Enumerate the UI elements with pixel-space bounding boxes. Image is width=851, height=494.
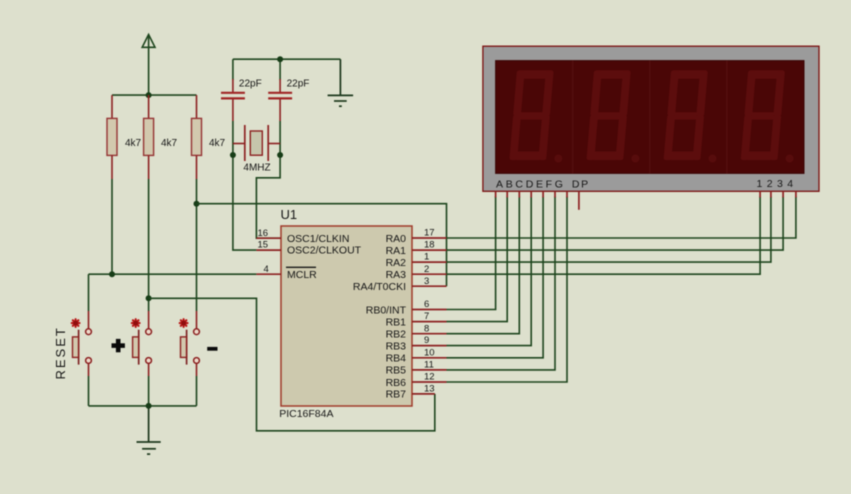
svg-text:7: 7 [424, 311, 429, 322]
button RESET [72, 311, 92, 376]
svg-text:MCLR: MCLR [287, 269, 317, 281]
svg-text:RB6: RB6 [386, 377, 407, 389]
pin 16 OSC1/CLKIN [256, 228, 349, 245]
wire R1 to MCLR rail [111, 179, 113, 274]
svg-text:4k7: 4k7 [161, 138, 178, 149]
button minus [180, 311, 200, 376]
pin 11 RB5 [386, 360, 447, 377]
svg-text:8: 8 [424, 323, 429, 334]
microcontroller U1 PIC16F84A [281, 226, 412, 406]
node plus branch junction [146, 295, 152, 301]
wire RA2 to digit2 [447, 197, 771, 263]
resistor R1 4k7 [107, 95, 142, 179]
wire RA0 to digit4 [447, 197, 796, 239]
svg-text:13: 13 [424, 384, 435, 395]
node ground rail junction [146, 403, 152, 409]
capacitor C2 22pF [268, 59, 309, 121]
ground top [328, 59, 354, 106]
pin 15 OSC2/CLKOUT [256, 240, 361, 257]
svg-text:ABCDEFG: ABCDEFG [496, 179, 566, 191]
node R1-MCLR junction [109, 271, 115, 277]
svg-text:OSC2/CLKOUT: OSC2/CLKOUT [287, 245, 362, 257]
svg-text:3: 3 [424, 276, 429, 287]
pin 17 RA0 [386, 228, 447, 245]
pin 3 RA4/T0CKI [353, 276, 447, 293]
svg-text:DP: DP [572, 179, 590, 191]
wire C2 to OSC1 [256, 121, 280, 238]
svg-text:6: 6 [424, 299, 429, 310]
node minus branch junction [194, 201, 200, 207]
pin 6 RB0/INT [366, 299, 447, 316]
svg-text:4: 4 [264, 264, 269, 275]
wire RA1 to digit3 [447, 197, 784, 251]
display digit 3 segments [664, 70, 708, 160]
pin 9 RB3 [386, 335, 447, 352]
display pin B [506, 191, 508, 197]
wire resistor top rail [112, 94, 197, 96]
wire RB5 to segment F [447, 197, 556, 370]
svg-text:OSC1/CLKIN: OSC1/CLKIN [287, 233, 349, 245]
svg-text:22pF: 22pF [239, 78, 262, 89]
button plus [132, 311, 152, 376]
svg-text:RB2: RB2 [386, 329, 407, 341]
wire MCLR rail [89, 273, 257, 275]
svg-text:PIC16F84A: PIC16F84A [279, 408, 333, 420]
wire C1 to OSC2 [233, 121, 257, 250]
display pin digit3 [782, 191, 784, 197]
svg-text:RA3: RA3 [386, 269, 407, 281]
svg-text:18: 18 [424, 240, 435, 251]
display digit 2 dp [631, 155, 639, 163]
display inner window [496, 61, 804, 174]
display pin F [554, 191, 556, 197]
label minus [207, 347, 217, 351]
display pin DP unconnected [578, 191, 580, 210]
svg-text:22pF: 22pF [287, 78, 310, 89]
wire RB1 to segment B [447, 197, 508, 322]
svg-text:4k7: 4k7 [125, 138, 142, 149]
svg-text:RB7: RB7 [386, 389, 407, 401]
display pin C [518, 191, 520, 197]
pin 1 RA2 [386, 252, 447, 269]
svg-text:2: 2 [424, 264, 429, 275]
7-segment display frame [483, 46, 819, 191]
display pin digit2 [770, 191, 772, 197]
wire button ground rail [89, 376, 197, 406]
wire RB0 to segment A [447, 197, 496, 310]
display pin A [495, 191, 497, 197]
svg-text:16: 16 [258, 228, 269, 239]
svg-text:RESET: RESET [53, 326, 68, 379]
svg-text:11: 11 [424, 360, 434, 371]
svg-text:1234: 1234 [757, 178, 798, 190]
display digit 4 segments [741, 70, 785, 160]
wire RB6 to segment G [447, 197, 568, 383]
display pin E [542, 191, 544, 197]
display digit 1 dp [554, 155, 562, 163]
display pin digit4 [795, 191, 797, 197]
svg-text:RA1: RA1 [386, 245, 407, 257]
display digit 1 segments [509, 70, 553, 160]
wire R2 to plus button [148, 179, 150, 311]
svg-text:RA2: RA2 [386, 257, 407, 269]
svg-text:RA4/T0CKI: RA4/T0CKI [353, 281, 406, 293]
display digit 4 dp [786, 155, 794, 163]
svg-text:RB0/INT: RB0/INT [366, 304, 407, 316]
wire plus button to RB7 route [149, 298, 435, 431]
display pin digit1 [759, 191, 761, 197]
label plus [112, 339, 125, 352]
display pin G [566, 191, 568, 197]
pin 7 RB1 [386, 311, 447, 328]
svg-text:4k7: 4k7 [209, 138, 226, 149]
svg-text:RA0: RA0 [386, 233, 407, 245]
svg-text:17: 17 [424, 228, 435, 239]
wire RESET button drop [88, 274, 90, 311]
svg-text:U1: U1 [281, 207, 298, 222]
svg-text:10: 10 [424, 347, 435, 358]
node crystal right junction [277, 152, 283, 158]
resistor R3 4k7 [192, 95, 226, 179]
wire R3 to minus button [196, 179, 198, 311]
pin 4 MCLR [256, 264, 317, 281]
wire RA3 to digit1 [447, 197, 761, 275]
ground bottom [137, 406, 161, 454]
wire RB2 to segment C [447, 197, 520, 334]
svg-text:15: 15 [258, 240, 269, 251]
svg-text:RB4: RB4 [386, 353, 407, 365]
svg-text:1: 1 [424, 252, 429, 263]
svg-text:RB1: RB1 [386, 316, 407, 328]
wire top oscillator rail [233, 58, 341, 60]
svg-text:12: 12 [424, 372, 435, 383]
svg-text:4MHZ: 4MHZ [243, 163, 270, 174]
wire RB3 to segment D [447, 197, 532, 346]
capacitor C1 22pF [221, 59, 262, 121]
pin 10 RB4 [386, 347, 447, 364]
wire minus button to RA4 route [197, 204, 447, 287]
node C2 top junction [277, 56, 283, 62]
display digit 2 segments [586, 70, 630, 160]
resistor R2 4k7 [144, 95, 178, 179]
display digit 3 dp [709, 155, 717, 163]
svg-text:RB5: RB5 [386, 365, 407, 377]
display pin D [530, 191, 532, 197]
node power-resistor junction [146, 92, 152, 98]
pin 18 RA1 [386, 240, 447, 257]
power symbol VCC arrow [142, 35, 155, 96]
crystal X1 4MHZ [233, 125, 280, 174]
pin 13 RB7 [386, 384, 435, 401]
pin 2 RA3 [386, 264, 447, 281]
node crystal left junction [230, 152, 236, 158]
pin 8 RB2 [386, 323, 447, 340]
display digit separators [573, 61, 727, 174]
svg-text:9: 9 [424, 335, 429, 346]
wire RB4 to segment E [447, 197, 544, 358]
svg-text:RB3: RB3 [386, 340, 407, 352]
pin 12 RB6 [386, 372, 447, 389]
